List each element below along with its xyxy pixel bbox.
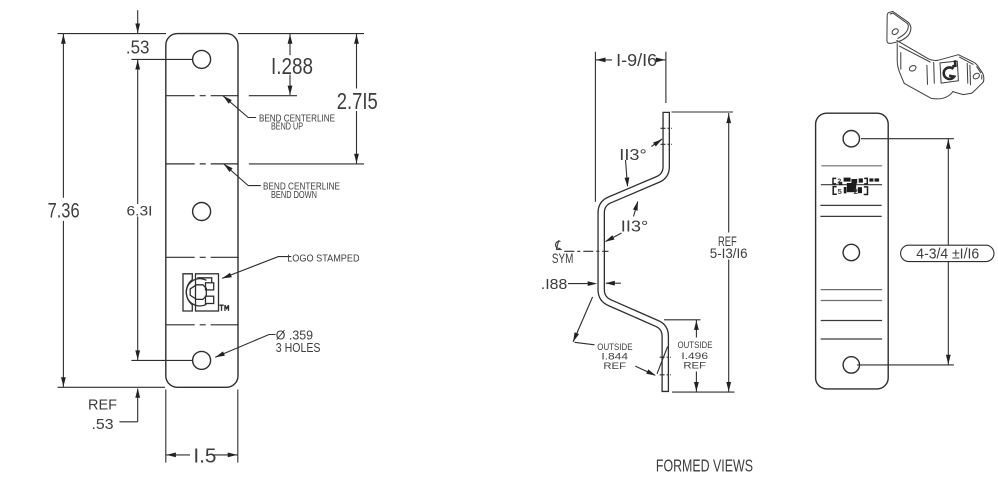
iso hole web: [908, 64, 917, 72]
DIMENSIONS SIDE VIEW: [568, 52, 735, 392]
iso web top edges: [897, 40, 959, 60]
svg-text:REF: REF: [603, 361, 626, 371]
svg-text:BEND DOWN: BEND DOWN: [271, 189, 317, 201]
svg-text:II3°: II3°: [619, 147, 647, 164]
iso rising face bottom edge: [953, 92, 971, 95]
ext hole1 center: [131, 58, 192, 60]
svg-text:OUTSIDE: OUTSIDE: [597, 342, 632, 352]
iso flange 1 outline: [887, 12, 911, 44]
svg-text:II3°: II3°: [621, 219, 649, 236]
formed plate outline: [816, 113, 889, 389]
DIMENSIONS LEFT VIEW: [58, 10, 365, 462]
iso hole right flange: [972, 72, 980, 80]
bend centerline 4: [166, 324, 239, 326]
svg-text:REF: REF: [88, 397, 117, 414]
leader outside 1.844 right: [635, 366, 655, 375]
dim line 1.5: [166, 454, 190, 456]
iso web bottom edge: [904, 83, 953, 98]
dim line 1-9/16: [595, 59, 612, 61]
leader 113 lower to diagonal: [634, 202, 638, 217]
svg-text:5-I3/I6: 5-I3/I6: [710, 245, 748, 261]
leader bend up note: [223, 96, 256, 118]
svg-text:I.496: I.496: [681, 351, 708, 361]
iso right flange thickness edges: [960, 57, 982, 79]
leader 113 upper to bar: [651, 139, 662, 147]
ext 1.5 left: [165, 390, 167, 463]
balloon 4-3/4: [901, 245, 994, 261]
leader .188 right: [606, 282, 621, 284]
hole 1 flat: [193, 50, 211, 68]
REF .53 leader: [119, 421, 137, 423]
leader 113 lower to web: [606, 233, 622, 242]
leader logo stamped: [222, 257, 291, 279]
svg-text:I.844: I.844: [601, 351, 628, 361]
centerline symbol: [556, 240, 562, 249]
dim line 7.36: [62, 34, 64, 198]
bend centerline 1 (bend up): [166, 95, 239, 97]
ext line plate top: [58, 33, 167, 35]
ext hole3 center: [131, 359, 192, 361]
svg-text:SYM: SYM: [552, 251, 574, 266]
dim outside 1.496: [695, 320, 697, 338]
ext formed hole1: [861, 138, 954, 140]
svg-text:5: 5: [838, 187, 842, 196]
ext outside 1.496 top: [664, 319, 701, 321]
flat plate outline: [166, 34, 238, 388]
ext 1-9/16 right: [665, 52, 667, 103]
iso right flange outline: [958, 55, 983, 94]
ISOMETRIC VIEW: [887, 12, 984, 99]
dim line 2.715: [356, 34, 358, 89]
leader 3 holes: [215, 335, 275, 358]
leader bend down note: [224, 164, 261, 186]
leader .188 left: [568, 283, 590, 285]
svg-text:I.288: I.288: [271, 53, 313, 79]
svg-text:.I88: .I88: [541, 276, 568, 293]
DIMENSIONS FORMED FRONT: [857, 139, 994, 365]
svg-text:I.5: I.5: [193, 445, 216, 467]
ext 1.5 right: [237, 390, 239, 463]
svg-text:4-3/4 ±I/I6: 4-3/4 ±I/I6: [916, 246, 979, 263]
hole 3 flat: [193, 351, 211, 369]
formed profile body: [601, 112, 666, 392]
iso logo G stamp: [944, 60, 956, 79]
dim line .53 top: [137, 10, 139, 33]
svg-text:REF: REF: [683, 361, 706, 371]
dim line REF 5-13/16: [728, 113, 730, 233]
dim line 4-3/4: [947, 139, 949, 246]
iso web left edge: [897, 44, 904, 84]
ext formed hole3: [857, 364, 954, 366]
svg-text:BEND UP: BEND UP: [271, 120, 303, 132]
ext bend line 1: [249, 95, 297, 97]
FLAT VIEW GROUP: [166, 34, 238, 388]
ext 1-9/16 left: [594, 52, 596, 202]
svg-text:LOGO STAMPED: LOGO STAMPED: [287, 253, 360, 265]
arrowheads side view: [596, 58, 606, 63]
hole 2 flat: [193, 203, 211, 221]
ext line plate top right: [238, 33, 364, 35]
formed hole 3: [843, 357, 859, 373]
svg-text:6.3I: 6.3I: [127, 202, 153, 218]
formed hole 1: [843, 131, 859, 147]
logo stamped graphic: [183, 274, 219, 311]
dim line 6.31: [137, 60, 139, 204]
svg-text:.53: .53: [92, 416, 114, 433]
leader 113 upper to diagonal: [626, 160, 628, 186]
bend centerline 3: [166, 256, 239, 258]
ext line plate bottom: [58, 386, 166, 388]
bend tangent tick marks top bar: [564, 128, 672, 374]
ext top bar top: [672, 111, 733, 113]
dim line 1.288: [289, 34, 291, 56]
bend centerline 2 (bend down): [166, 163, 239, 165]
formed hole 2: [843, 244, 859, 260]
leader outside 1.844 left: [573, 297, 593, 342]
centerline SYM dash-dot: [564, 250, 608, 252]
iso logo square: [940, 61, 958, 83]
arrowheads left view: [61, 34, 66, 44]
arrowheads formed front: [946, 139, 951, 149]
svg-text:3 HOLES: 3 HOLES: [276, 340, 321, 355]
svg-text:2: 2: [837, 179, 841, 186]
ext bottom bar bottom: [672, 391, 735, 393]
svg-text:.53: .53: [126, 37, 150, 57]
bend tangent tick marks bottom bar: [660, 356, 671, 358]
ext bend line 2: [249, 163, 364, 165]
svg-text:FORMED VIEWS: FORMED VIEWS: [656, 456, 753, 476]
iso flange 1 thickness edges: [890, 13, 908, 38]
svg-text:2.7I5: 2.7I5: [337, 88, 378, 114]
iso bend tangent lines right of logo: [966, 63, 969, 83]
svg-text:2: 2: [854, 187, 858, 196]
iso hole flange 1: [891, 28, 899, 36]
svg-text:OUTSIDE: OUTSIDE: [678, 340, 713, 350]
svg-text:I-9/I6: I-9/I6: [616, 50, 657, 70]
iso bend tangent lines left of logo: [926, 65, 929, 84]
TM mark: [219, 305, 228, 311]
formed view bend tangent lines: [820, 166, 882, 339]
stamped part number text: [833, 178, 868, 194]
svg-text:7.36: 7.36: [48, 200, 80, 223]
FORMED FRONT VIEW: [816, 113, 889, 389]
